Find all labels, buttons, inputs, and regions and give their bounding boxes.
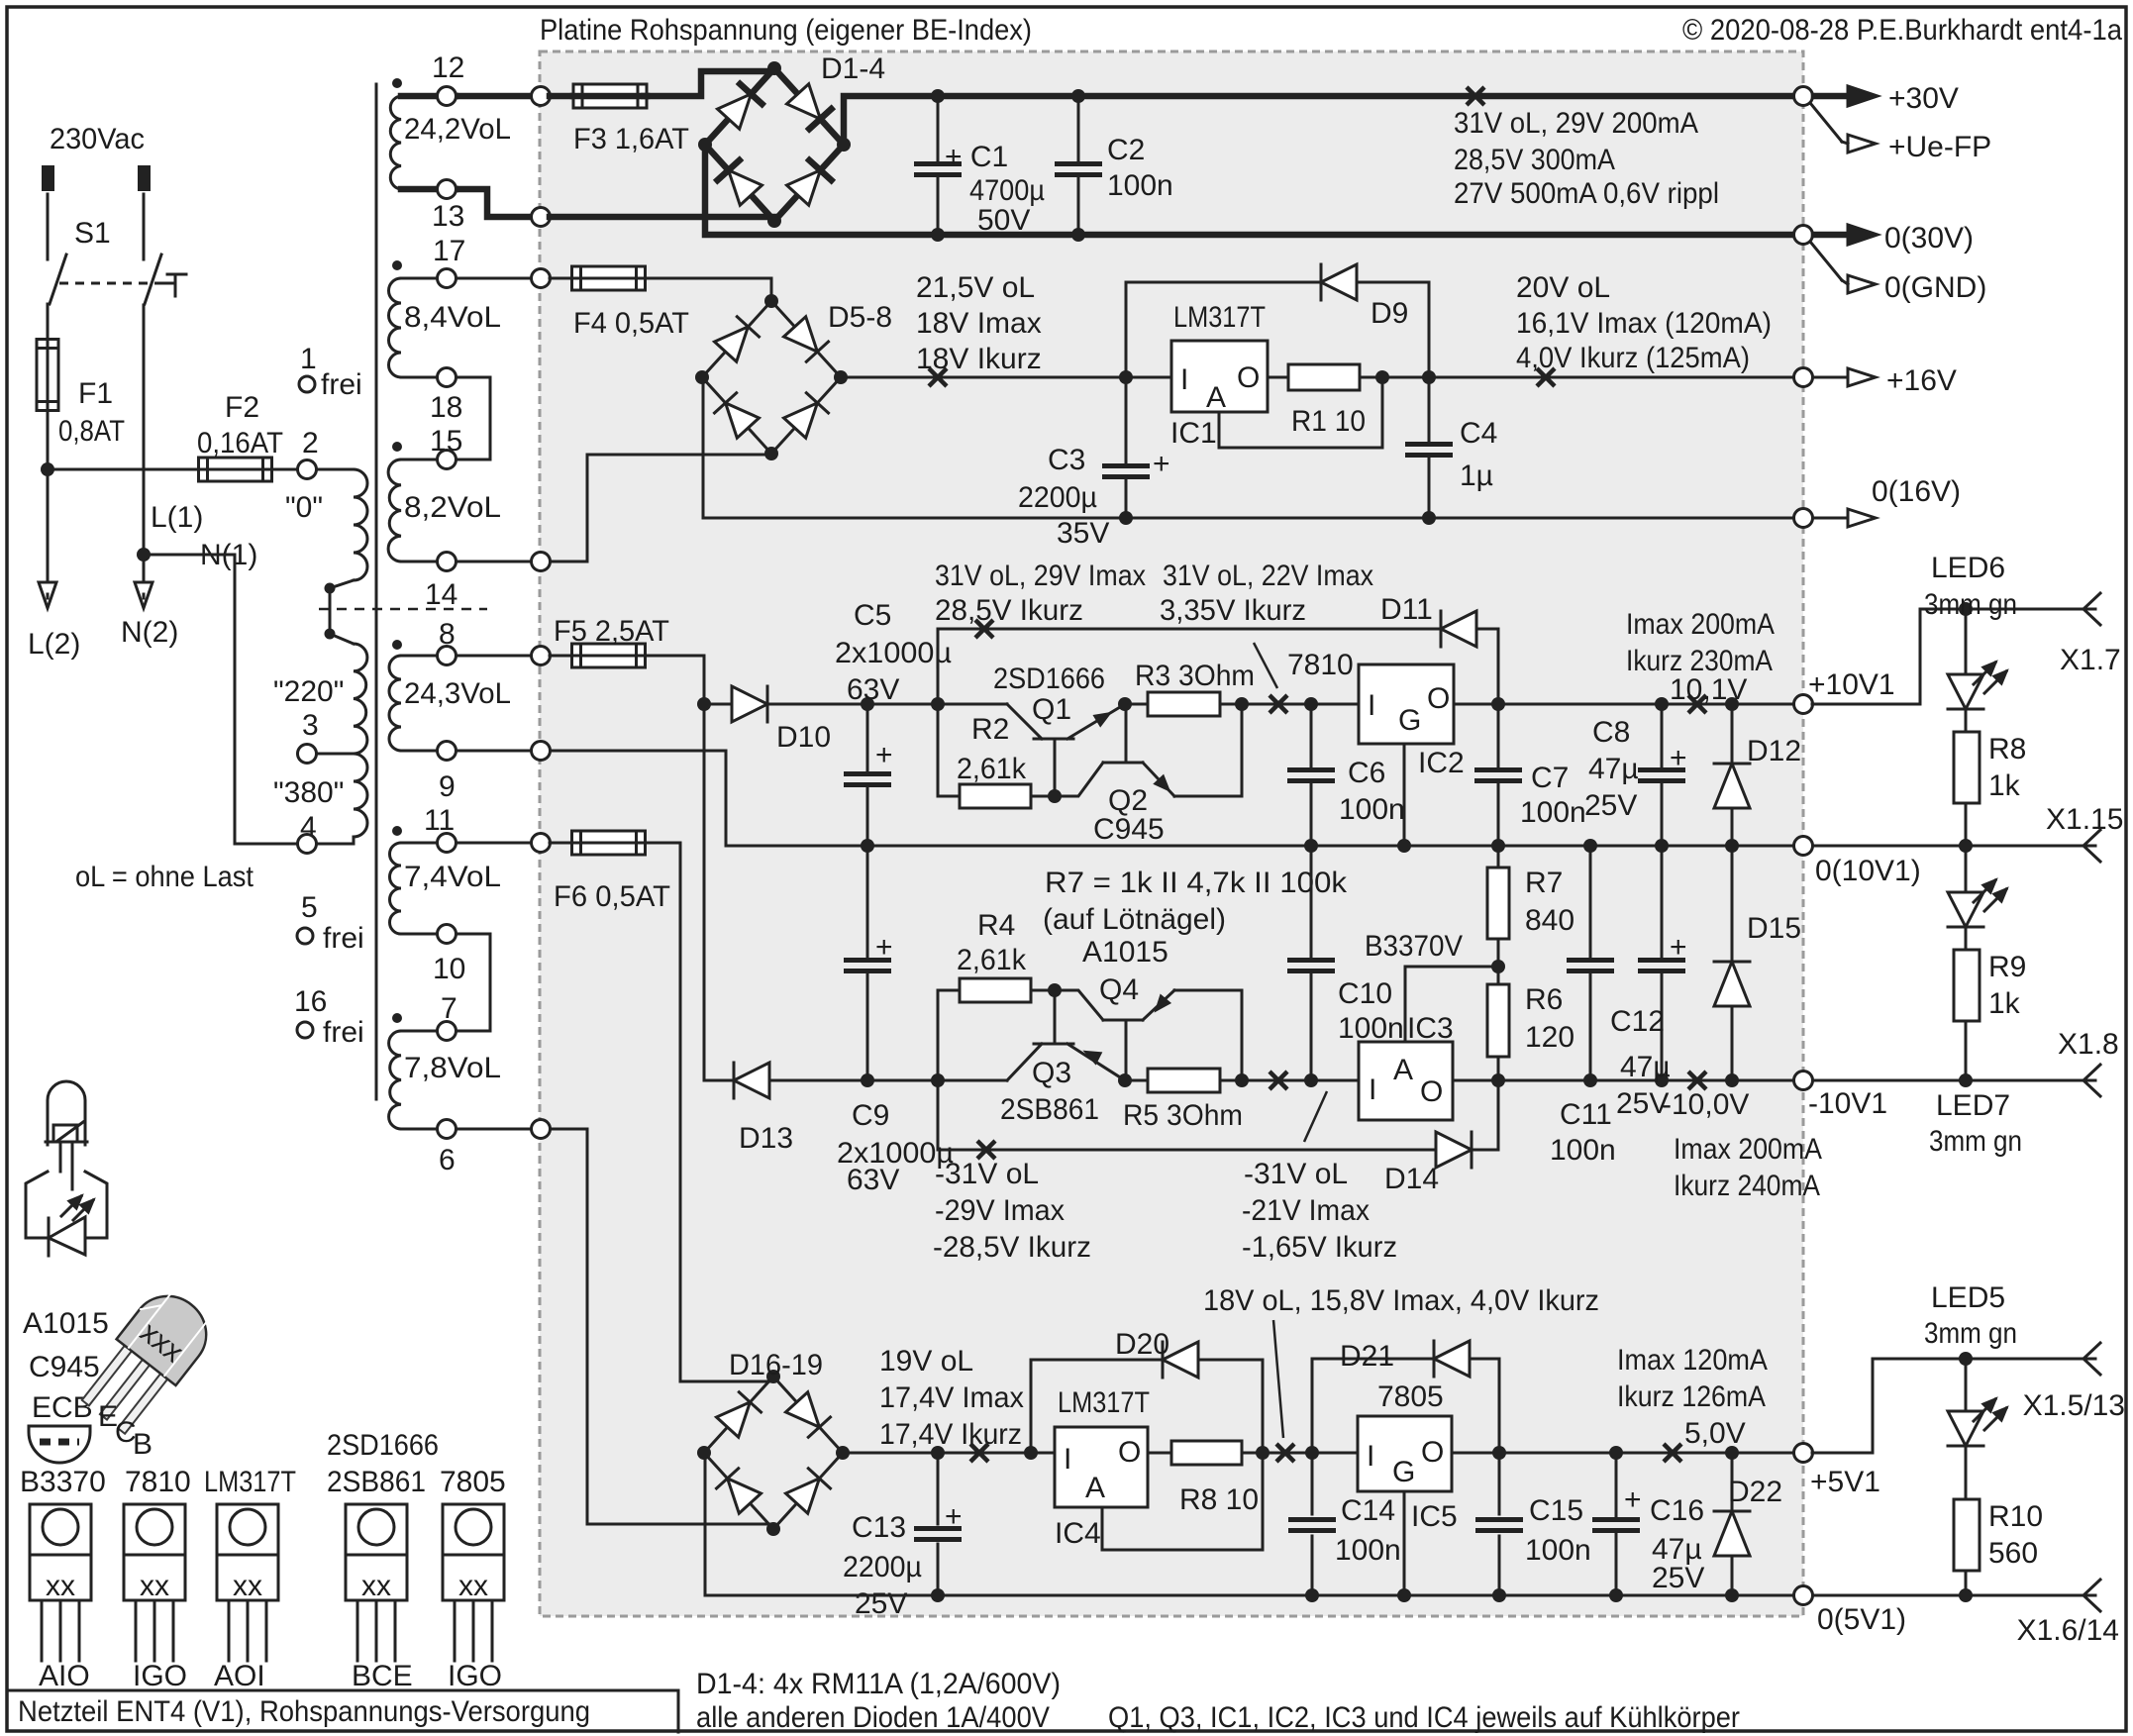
svg-text:63V: 63V: [847, 1164, 899, 1196]
LED7: [1965, 846, 1968, 892]
svg-text:-21V Imax: -21V Imax: [1242, 1194, 1370, 1227]
capacitor C10: [1310, 846, 1313, 957]
svg-text:18: 18: [430, 391, 462, 424]
svg-text:L(1): L(1): [151, 501, 203, 534]
svg-text:18V Imax: 18V Imax: [916, 307, 1042, 340]
primary phase dot upper: [325, 583, 336, 594]
capacitor C15: [1498, 1453, 1501, 1514]
svg-text:BCE: BCE: [352, 1660, 413, 1692]
svg-text:R8: R8: [1988, 733, 2026, 766]
capacitor C2: [1077, 96, 1080, 160]
svg-text:IC2: IC2: [1418, 747, 1465, 779]
svg-text:B3370: B3370: [20, 1466, 106, 1498]
secondary 11-10 winding 7,4VoL: [392, 826, 402, 836]
svg-text:2,61k: 2,61k: [957, 944, 1027, 976]
terminal 16 frei: [297, 1022, 313, 1038]
svg-text:C12: C12: [1610, 1005, 1665, 1038]
wire 11 to board edge: [456, 842, 541, 845]
svg-text:C15: C15: [1529, 1494, 1583, 1527]
capacitor C13: [937, 1453, 940, 1524]
wire 17 to board edge: [456, 277, 541, 280]
primary winding 380 section: [354, 754, 367, 837]
svg-text:2SD1666: 2SD1666: [327, 1429, 439, 1462]
svg-text:3: 3: [302, 709, 319, 742]
capacitor C5 upper: [866, 704, 869, 770]
svg-text:1µ: 1µ: [1460, 460, 1493, 492]
svg-text:9: 9: [439, 770, 456, 803]
terminal 0(30V): [1794, 226, 1813, 245]
svg-text:+: +: [1153, 448, 1170, 480]
secondary 7-6 winding 7,8VoL: [392, 1013, 402, 1023]
regulator IC5 7805: [1358, 1416, 1452, 1491]
svg-text:C7: C7: [1531, 762, 1569, 794]
svg-text:+30V: +30V: [1888, 82, 1959, 115]
IC3 adjust wire: [1405, 967, 1498, 1042]
svg-text:63V: 63V: [847, 673, 899, 706]
wire 9 to mid rail: [447, 751, 867, 846]
svg-text:2200µ: 2200µ: [1018, 481, 1097, 514]
svg-text:X1.8: X1.8: [2058, 1028, 2119, 1061]
svg-text:Netzteil ENT4 (V1), Rohspannun: Netzteil ENT4 (V1), Rohspannungs-Versorg…: [18, 1695, 590, 1728]
primary phase dot lower: [325, 629, 336, 640]
svg-text:I: I: [1180, 363, 1188, 396]
svg-text:+: +: [1624, 1483, 1642, 1516]
capacitor C16: [1615, 1453, 1618, 1516]
svg-text:R2: R2: [971, 713, 1009, 746]
svg-text:28,5V Ikurz: 28,5V Ikurz: [935, 594, 1083, 627]
svg-text:LED6: LED6: [1931, 552, 2005, 584]
svg-text:D13: D13: [739, 1122, 793, 1155]
svg-text:Imax 200mA: Imax 200mA: [1674, 1133, 1822, 1166]
svg-text:+: +: [945, 1500, 963, 1533]
title block box: [7, 1690, 678, 1732]
svg-text:C16: C16: [1650, 1494, 1704, 1527]
diode D10: [704, 703, 732, 706]
svg-text:47µ: 47µ: [1620, 1051, 1671, 1083]
wire 13 to board edge (thick): [447, 189, 541, 217]
svg-text:-10V1: -10V1: [1808, 1087, 1887, 1120]
svg-text:7,8VoL: 7,8VoL: [404, 1052, 501, 1084]
svg-text:7805: 7805: [440, 1466, 506, 1498]
svg-text:35V: 35V: [1057, 517, 1109, 550]
0(5V1) rail: [705, 1453, 1803, 1595]
svg-text:3mm gn: 3mm gn: [1924, 1317, 2017, 1350]
terminal +5V1: [1794, 1444, 1813, 1463]
svg-text:frei: frei: [323, 922, 364, 955]
svg-text:-1,65V Ikurz: -1,65V Ikurz: [1242, 1231, 1397, 1264]
svg-text:+ C1: + C1: [945, 141, 1008, 173]
svg-text:3mm gn: 3mm gn: [1929, 1125, 2022, 1158]
svg-text:R8 10: R8 10: [1179, 1483, 1259, 1516]
fuse F1: [37, 340, 58, 411]
svg-text:F5 2,5AT: F5 2,5AT: [554, 615, 669, 648]
terminal 0(16V): [1794, 509, 1813, 528]
svg-text:D10: D10: [776, 721, 831, 754]
wire F1 to node L: [47, 410, 50, 469]
svg-text:AIO: AIO: [39, 1660, 90, 1692]
fuse F6: [550, 842, 573, 845]
svg-text:IC1: IC1: [1170, 417, 1217, 450]
svg-text:I: I: [1367, 1440, 1374, 1473]
svg-text:-31V oL: -31V oL: [935, 1158, 1039, 1190]
svg-text:+: +: [875, 931, 893, 964]
svg-text:I: I: [1064, 1443, 1071, 1476]
IC5 ground pin: [1403, 1491, 1406, 1595]
svg-text:xx: xx: [46, 1570, 75, 1602]
transformer core: [375, 84, 378, 1099]
wire D13 to Q3: [867, 1079, 1007, 1082]
svg-text:xx: xx: [361, 1570, 391, 1602]
svg-text:C11: C11: [1560, 1098, 1612, 1131]
svg-text:A: A: [1206, 381, 1226, 414]
mains pin N: [138, 165, 151, 191]
IC4 adjust pin wire: [1102, 1453, 1263, 1550]
terminal 2 circle: [298, 460, 317, 479]
pointer to measure mark lower: [1304, 1091, 1327, 1142]
wire 0(16V) rail: [703, 377, 1803, 518]
svg-text:D12: D12: [1747, 735, 1801, 767]
svg-text:31V oL, 29V 200mA: 31V oL, 29V 200mA: [1454, 107, 1698, 140]
svg-text:IC4: IC4: [1055, 1517, 1101, 1550]
svg-text:11: 11: [424, 804, 455, 837]
legend LED symbol inside: [49, 1217, 85, 1255]
svg-text:I: I: [1369, 1073, 1376, 1106]
switch S1 blade N: [145, 255, 161, 304]
svg-text:7: 7: [441, 992, 457, 1025]
svg-text:28,5V 300mA: 28,5V 300mA: [1454, 144, 1615, 176]
svg-text:F6 0,5AT: F6 0,5AT: [554, 880, 670, 913]
X1.5/13 line: [1873, 1358, 2095, 1361]
svg-text:-31V oL: -31V oL: [1244, 1158, 1348, 1190]
terminal 5 frei: [297, 928, 313, 944]
svg-text:21,5V oL: 21,5V oL: [916, 271, 1035, 304]
svg-text:2200µ: 2200µ: [843, 1551, 922, 1583]
fuse F3: [550, 93, 573, 100]
svg-text:(auf Lötnägel): (auf Lötnägel): [1043, 903, 1226, 936]
svg-text:C4: C4: [1460, 417, 1497, 450]
terminal +30V: [1794, 87, 1813, 106]
resistor R9 1k: [1954, 950, 1980, 1021]
wire N pin to switch: [143, 194, 146, 259]
primary winding 220 section: [330, 634, 354, 644]
svg-text:-29V Imax: -29V Imax: [935, 1194, 1065, 1227]
diode D9 bypass loop: [1125, 282, 1128, 377]
svg-text:230Vac: 230Vac: [50, 123, 145, 155]
X1.7 line: [1920, 608, 2095, 611]
svg-text:C3: C3: [1048, 444, 1085, 476]
capacitor C6: [1310, 704, 1313, 766]
svg-text:31V oL, 29V Imax: 31V oL, 29V Imax: [935, 560, 1146, 592]
svg-text:C6: C6: [1348, 757, 1385, 789]
svg-text:LM317T: LM317T: [1173, 301, 1266, 334]
wire -10V1 to X1.8: [1814, 1079, 2095, 1082]
wire bridge to +30V bus: [844, 96, 1803, 145]
node L junction: [41, 462, 54, 476]
fuse F2: [199, 458, 272, 481]
fuse F4: [550, 277, 573, 280]
svg-text:3mm gn: 3mm gn: [1924, 588, 2017, 621]
svg-text:24,2VoL: 24,2VoL: [404, 113, 511, 146]
wire 6 to D16-19: [447, 1129, 773, 1524]
wire 0(5V1) to X1.6: [1814, 1594, 2095, 1597]
svg-text:D11: D11: [1380, 593, 1433, 626]
svg-text:G: G: [1392, 1456, 1415, 1488]
wire node L to fuse F2: [48, 468, 200, 471]
svg-text:D22: D22: [1728, 1476, 1782, 1508]
dashed winding separator 14: [319, 608, 487, 611]
svg-text:+: +: [875, 739, 893, 771]
svg-text:1k: 1k: [1988, 769, 2021, 802]
svg-text:+Ue-FP: +Ue-FP: [1888, 131, 1991, 163]
svg-text:C945: C945: [29, 1351, 100, 1383]
bridge rectifier D5-8: [702, 301, 771, 377]
svg-text:"220": "220": [273, 675, 344, 708]
svg-text:D1-4: 4x RM11A (1,2A/600V): D1-4: 4x RM11A (1,2A/600V): [696, 1668, 1061, 1700]
legend LED bulb outline: [48, 1081, 85, 1145]
wire D5-8 plus output to IC1: [840, 376, 1171, 379]
svg-text:F2: F2: [225, 391, 259, 424]
branch +Ue-FP: [1810, 103, 1842, 142]
measure mark and label 18V oL: [1276, 1444, 1294, 1462]
svg-text:10,1V: 10,1V: [1670, 673, 1747, 706]
svg-text:2x1000µ: 2x1000µ: [835, 637, 952, 669]
secondary terminal circles: [438, 87, 457, 106]
diode D14 bypass loop lower: [937, 1080, 940, 1150]
svg-text:xx: xx: [140, 1570, 169, 1602]
resistor R7 840: [1497, 846, 1500, 868]
svg-text:17: 17: [433, 235, 465, 267]
svg-text:D16-19: D16-19: [729, 1349, 823, 1381]
secondary 12-13 winding 24,2VoL: [392, 78, 402, 88]
wire F5 down to D10 node: [644, 656, 704, 704]
svg-text:-28,5V Ikurz: -28,5V Ikurz: [933, 1231, 1091, 1264]
terminal -10V1: [1794, 1072, 1813, 1090]
svg-text:50V: 50V: [977, 204, 1030, 237]
secondary 15-end winding 8,2VoL: [392, 442, 402, 452]
svg-text:C13: C13: [852, 1511, 906, 1544]
svg-text:A1015: A1015: [23, 1307, 109, 1340]
svg-text:AOI: AOI: [214, 1660, 265, 1692]
svg-text:7805: 7805: [1377, 1380, 1444, 1413]
svg-text:47µ: 47µ: [1588, 753, 1639, 785]
svg-text:frei: frei: [323, 1016, 364, 1049]
svg-text:R6: R6: [1525, 983, 1563, 1016]
svg-text:5: 5: [301, 891, 318, 924]
wire F6 to bridge D16-19 top: [644, 843, 773, 1381]
svg-text:O: O: [1427, 682, 1450, 715]
resistor R6 120: [1487, 984, 1509, 1057]
svg-text:+: +: [1670, 742, 1687, 774]
platine board area (grey): [540, 51, 1803, 1616]
diode D15: [1731, 846, 1734, 962]
secondary 17-18 winding 8,4VoL: [392, 260, 402, 270]
wire winding end to D5-8: [447, 455, 771, 562]
svg-text:25V: 25V: [1584, 789, 1637, 822]
svg-text:Ikurz 126mA: Ikurz 126mA: [1617, 1380, 1766, 1413]
arrow N(2): [135, 582, 152, 608]
wire F3 to bridge D1-4 top: [644, 71, 774, 96]
svg-text:100n: 100n: [1520, 796, 1586, 829]
wire IC5 out to +5V1: [1452, 1452, 1803, 1455]
svg-text:R3 3Ohm: R3 3Ohm: [1135, 660, 1255, 692]
svg-text:Ikurz 240mA: Ikurz 240mA: [1674, 1170, 1820, 1202]
svg-text:IGO: IGO: [448, 1660, 502, 1692]
svg-text:D1-4: D1-4: [821, 52, 885, 85]
wire switch to fuse F1: [47, 304, 50, 340]
diode D11 bypass loop upper: [937, 629, 940, 704]
transistor Q4 A1015: [1103, 1019, 1143, 1022]
resistor R4: [937, 1002, 940, 1080]
svg-text:B3370V: B3370V: [1365, 930, 1463, 963]
svg-text:18V oL, 15,8V Imax, 4,0V Ikurz: 18V oL, 15,8V Imax, 4,0V Ikurz: [1203, 1284, 1599, 1317]
platine dashed border: [540, 51, 1803, 1616]
svg-text:LM317T: LM317T: [204, 1466, 296, 1498]
diode D20 bypass loop: [1031, 1360, 1163, 1453]
wire F2 to terminal 2: [270, 468, 298, 471]
LED6: [1965, 609, 1968, 674]
IC1 adjust pin wire: [1219, 377, 1382, 448]
svg-text:-10,0V: -10,0V: [1662, 1088, 1749, 1121]
primary tap wire: [329, 588, 332, 634]
svg-text:2SB861: 2SB861: [327, 1466, 426, 1498]
svg-text:xx: xx: [458, 1570, 488, 1602]
primary winding upper: [316, 468, 354, 471]
svg-text:100n: 100n: [1339, 793, 1405, 826]
measure mark 16V raw: [929, 368, 947, 386]
board edge terminal circles: [532, 87, 551, 106]
svg-text:+: +: [1670, 931, 1687, 964]
svg-text:G: G: [1398, 704, 1421, 737]
resistor R3: [1125, 703, 1148, 706]
svg-text:14: 14: [425, 578, 457, 611]
svg-text:B: B: [133, 1428, 152, 1461]
transistor Q3 2SB861: [1007, 1044, 1042, 1080]
wire +5V1 to X1.5 line: [1812, 1359, 1873, 1453]
bridge rectifier D1-4: [705, 68, 774, 145]
svg-text:0,16AT: 0,16AT: [197, 427, 283, 460]
svg-text:7810: 7810: [125, 1466, 191, 1498]
svg-text:I: I: [1368, 689, 1375, 722]
wire N switch down: [143, 305, 146, 555]
TO-92 package 3D: [73, 1281, 221, 1440]
svg-text:A1015: A1015: [1082, 936, 1168, 969]
svg-text:A: A: [1085, 1472, 1105, 1504]
svg-text:C5: C5: [854, 599, 891, 632]
svg-text:D14: D14: [1384, 1163, 1439, 1195]
svg-text:IC3: IC3: [1407, 1012, 1454, 1045]
node N junction: [137, 548, 151, 562]
svg-text:7,4VoL: 7,4VoL: [404, 861, 501, 893]
resistor R1: [1268, 376, 1288, 379]
svg-text:Imax 200mA: Imax 200mA: [1626, 608, 1775, 641]
svg-text:+5V1: +5V1: [1810, 1466, 1880, 1498]
X1.15 connector: [2083, 830, 2100, 862]
svg-text:Platine Rohspannung (eigener B: Platine Rohspannung (eigener BE-Index): [540, 14, 1032, 47]
svg-text:"0": "0": [285, 491, 323, 524]
svg-text:0(16V): 0(16V): [1872, 475, 1961, 508]
svg-text:8,2VoL: 8,2VoL: [404, 491, 501, 524]
bracket 10 to 7: [447, 934, 490, 1031]
legend LED leads: [59, 1145, 62, 1172]
svg-text:4,0V Ikurz (125mA): 4,0V Ikurz (125mA): [1516, 342, 1750, 374]
svg-text:LM317T: LM317T: [1058, 1386, 1150, 1419]
legend LED chip: [53, 1125, 77, 1142]
svg-text:C945: C945: [1093, 813, 1165, 846]
svg-text:18V Ikurz: 18V Ikurz: [916, 343, 1042, 375]
regulator IC2 7810: [1359, 664, 1454, 744]
svg-text:oL = ohne Last: oL = ohne Last: [75, 861, 254, 893]
resistor R10 560: [1954, 1499, 1980, 1571]
resistor R2: [937, 704, 940, 784]
0(10V1) mid rail: [867, 845, 2095, 848]
svg-text:Q1: Q1: [1032, 693, 1071, 726]
svg-text:6: 6: [439, 1144, 456, 1176]
transistor Q2 C945: [1103, 762, 1143, 765]
legend LED housing: [26, 1172, 107, 1238]
svg-text:LED5: LED5: [1931, 1281, 2005, 1314]
svg-text:100n: 100n: [1550, 1134, 1616, 1167]
diode D21 bypass loop: [1312, 1359, 1434, 1453]
svg-text:8,4VoL: 8,4VoL: [404, 301, 501, 334]
svg-text:D15: D15: [1747, 912, 1801, 945]
svg-text:Q3: Q3: [1032, 1057, 1071, 1089]
svg-text:17,4V Ikurz: 17,4V Ikurz: [879, 1418, 1022, 1451]
svg-text:Q1, Q3, IC1, IC2, IC3 und IC4: Q1, Q3, IC1, IC2, IC3 und IC4 jeweils au…: [1108, 1701, 1740, 1734]
wire bridge to 0(30V) bus: [705, 145, 1803, 235]
svg-text:2SB861: 2SB861: [1000, 1093, 1099, 1126]
svg-text:20V oL: 20V oL: [1516, 271, 1610, 304]
svg-text:R10: R10: [1988, 1500, 2043, 1533]
svg-text:O: O: [1420, 1075, 1443, 1108]
arrow L(2): [39, 582, 56, 608]
wire F4 to bridge D5-8 top: [644, 278, 771, 300]
svg-text:16,1V Imax (120mA): 16,1V Imax (120mA): [1516, 307, 1772, 340]
svg-text:100n: 100n: [1107, 169, 1173, 202]
svg-text:© 2020-08-28 P.E.Burkhardt ent: © 2020-08-28 P.E.Burkhardt ent4-1a: [1682, 14, 2122, 47]
svg-text:F4 0,5AT: F4 0,5AT: [573, 307, 689, 340]
svg-text:LED7: LED7: [1936, 1089, 2010, 1122]
svg-text:2,61k: 2,61k: [957, 753, 1027, 785]
wire L pin to switch: [47, 194, 50, 259]
capacitor C11: [1589, 846, 1592, 957]
svg-text:560: 560: [1988, 1537, 2038, 1570]
switch S1 T mark: [156, 282, 175, 285]
svg-text:0,8AT: 0,8AT: [58, 415, 125, 448]
regulator IC3 B3370V: [1359, 1042, 1453, 1120]
svg-text:X1.15: X1.15: [2046, 803, 2123, 836]
svg-text:10: 10: [433, 953, 465, 985]
svg-text:25V: 25V: [855, 1587, 907, 1620]
svg-text:0(5V1): 0(5V1): [1817, 1603, 1906, 1636]
capacitor C1: [937, 96, 940, 160]
capacitor C9 lower: [866, 846, 869, 957]
svg-text:4700µ: 4700µ: [969, 174, 1045, 207]
svg-text:A: A: [1393, 1054, 1413, 1086]
svg-text:O: O: [1237, 361, 1260, 394]
svg-text:R1 10: R1 10: [1291, 405, 1366, 438]
fuse F5: [550, 655, 573, 658]
wire R1 to +16V terminal: [1362, 376, 1803, 379]
svg-text:"380": "380": [273, 776, 344, 809]
svg-text:F1: F1: [78, 377, 113, 410]
switch S1 coupling dashed: [59, 282, 156, 285]
terminal +16V: [1794, 368, 1813, 387]
capacitor C7: [1497, 704, 1500, 766]
resistor R8 10: [1148, 1452, 1171, 1455]
svg-text:X1.5/13: X1.5/13: [2023, 1389, 2125, 1422]
svg-text:S1: S1: [74, 217, 111, 250]
terminal +10V1: [1794, 695, 1813, 714]
